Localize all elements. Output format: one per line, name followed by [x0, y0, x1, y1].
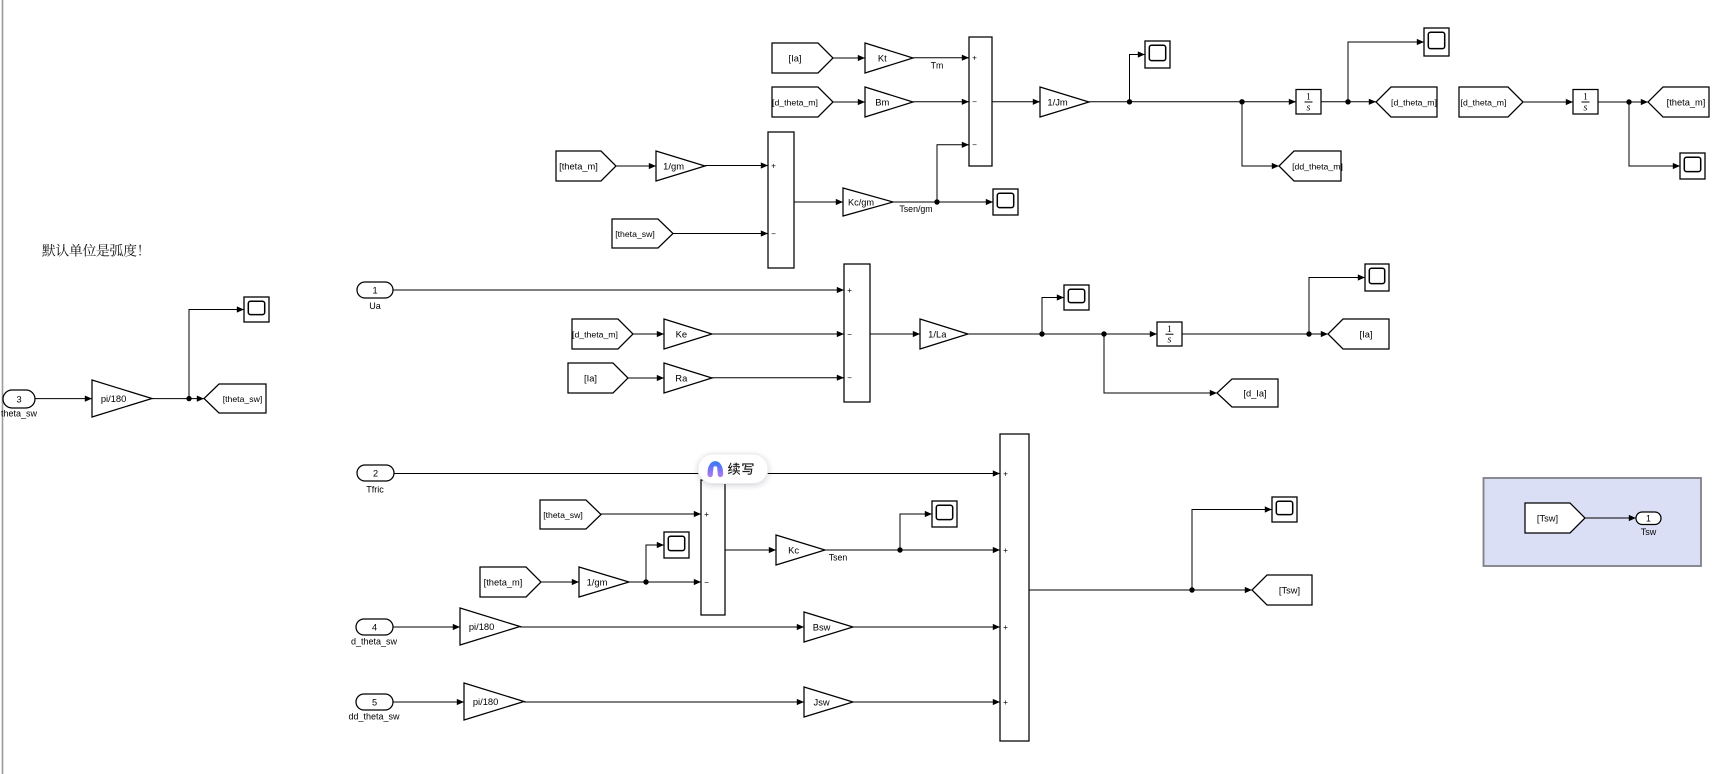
wire [d_theta_m] to gain Bm — [833, 99, 865, 105]
outport 1 Tsw — [1636, 512, 1661, 537]
wire Kc to torque sum, signal Tsen — [825, 547, 1000, 563]
wire integrator current out — [1182, 331, 1328, 337]
wire [Tsw] to outport — [1585, 515, 1636, 521]
inport 5 dd_theta_sw — [348, 694, 400, 722]
svg-text:s: s — [1584, 102, 1588, 113]
svg-text:1: 1 — [1583, 93, 1588, 103]
annotation text "默认单位是弧度！" — [42, 244, 141, 257]
gain 1/gm upper — [656, 151, 705, 181]
scope 1 (acceleration) — [1145, 41, 1170, 68]
junction theta_sw — [186, 396, 191, 401]
sum block switch torque — [1000, 434, 1029, 741]
svg-text:1/gm: 1/gm — [587, 576, 608, 587]
svg-text:d_theta_sw: d_theta_sw — [351, 637, 398, 647]
junction to goto dd_theta_m — [1239, 99, 1244, 104]
sum block sensor difference — [701, 480, 725, 615]
svg-text:+: + — [1003, 546, 1008, 555]
svg-text:Tm: Tm — [931, 61, 944, 71]
From tag [d_theta_m] right — [1459, 87, 1523, 117]
gain Ra — [664, 363, 712, 393]
wire angle sum to gain Kc/gm — [794, 199, 843, 205]
sum block motor torque — [969, 37, 992, 166]
Goto tag [Ia] — [1328, 319, 1389, 349]
svg-text:−: − — [847, 330, 852, 339]
svg-text:[theta_m]: [theta_m] — [484, 577, 523, 587]
svg-text:[theta_m]: [theta_m] — [1667, 97, 1706, 107]
svg-text:[Ia]: [Ia] — [789, 53, 802, 63]
wire Kt to sum, signal Tm — [913, 55, 969, 71]
svg-text:+: + — [972, 54, 977, 63]
svg-text:[theta_m]: [theta_m] — [559, 161, 598, 171]
svg-text:4: 4 — [372, 622, 377, 632]
Goto tag [d_Ia] — [1217, 379, 1278, 407]
wire integrator out to goto [d_theta_m] — [1321, 99, 1376, 105]
svg-text:2: 2 — [373, 468, 378, 478]
svg-text:[d_theta_m]: [d_theta_m] — [772, 97, 818, 107]
From tag [theta_m] lower — [480, 567, 541, 597]
wire [theta_sw] to angle sum — [673, 230, 768, 236]
wire down to goto [d_Ia] — [1104, 334, 1217, 396]
junction to goto d_Ia — [1101, 331, 1106, 336]
wire [theta_sw] to sensor sum — [601, 511, 701, 517]
wire sum to gain 1/Jm — [992, 99, 1040, 105]
gain Bsw — [804, 612, 853, 642]
wire Jsw to torque sum sw — [853, 699, 1000, 705]
svg-text:−: − — [704, 578, 709, 587]
svg-text:theta_sw: theta_sw — [1, 409, 38, 419]
svg-text:dd_theta_sw: dd_theta_sw — [348, 712, 400, 722]
gain Kt — [865, 43, 913, 73]
scope 7 (theta_sw rad) — [244, 297, 269, 322]
svg-text:[Tsw]: [Tsw] — [1279, 585, 1300, 595]
gain pi/180 (d_theta_sw) — [460, 608, 520, 645]
wire torque sum output to goto [Tsw] — [1029, 587, 1252, 593]
svg-text:[d_theta_m]: [d_theta_m] — [572, 329, 618, 339]
wire up to scope 10 — [1192, 506, 1272, 590]
svg-text:Tsw: Tsw — [1641, 527, 1657, 537]
svg-text:s: s — [1168, 334, 1172, 345]
svg-text:[theta_sw]: [theta_sw] — [223, 394, 263, 404]
subsystem output area (selected region) — [1484, 478, 1702, 566]
From tag [Tsw] in subsystem — [1525, 503, 1585, 533]
gain Jsw — [804, 687, 853, 717]
scope 3 (motor angle) — [1680, 153, 1705, 179]
junction to scope d_Ia — [1039, 331, 1044, 336]
svg-text:Tsen: Tsen — [829, 553, 848, 563]
wire 1/La output trunk — [968, 331, 1157, 337]
wire up to scope 8 — [646, 542, 664, 582]
Goto tag [d_theta_m] — [1376, 87, 1437, 117]
wire theta_sw to gain pi/180 — [35, 396, 92, 402]
integrator 1/s motor angle — [1573, 90, 1598, 115]
svg-text:+: + — [771, 161, 776, 170]
wire up to scope 2 — [1348, 39, 1424, 102]
wire 1/gm to angle sum — [705, 162, 768, 168]
junction Tsw — [1189, 587, 1194, 592]
inport 3 theta_sw — [1, 390, 38, 419]
junction Tsen — [897, 547, 902, 552]
svg-text:[Ia]: [Ia] — [1360, 329, 1373, 339]
scope 6 (Ia) — [1365, 264, 1389, 291]
svg-text:3: 3 — [16, 394, 21, 404]
wire up to scope 1 — [1130, 51, 1146, 101]
wire Tsen/gm up to torque sum — [937, 142, 969, 202]
svg-text:+: + — [1003, 469, 1008, 478]
wire to gain Ke — [633, 331, 664, 337]
svg-text:+: + — [847, 286, 852, 295]
wire up to scope 5 — [1042, 294, 1064, 334]
inport 4 d_theta_sw — [351, 619, 398, 647]
scope 10 (Tsw) — [1272, 497, 1297, 522]
scope 2 (motor speed) — [1424, 28, 1449, 56]
gain Kc/gm — [843, 188, 893, 216]
svg-text:[Tsw]: [Tsw] — [1537, 513, 1558, 523]
svg-text:Ke: Ke — [676, 328, 687, 339]
gain 1/Jm — [1040, 87, 1089, 117]
svg-text:1: 1 — [1646, 514, 1651, 524]
scope 8 (angle diff) — [664, 532, 689, 558]
From tag [d_theta_m] top — [772, 87, 833, 117]
svg-text:[d_theta_m]: [d_theta_m] — [1461, 97, 1507, 107]
wire 1/gm to sensor sum — [629, 579, 701, 585]
AI assistant pill button 续写 — [698, 454, 768, 484]
junction Tsen/gm — [934, 199, 939, 204]
junction sensor input — [643, 579, 648, 584]
svg-text:[theta_sw]: [theta_sw] — [615, 229, 655, 239]
svg-text:Bm: Bm — [875, 96, 889, 107]
wire voltage sum to gain 1/La — [870, 331, 920, 337]
wire up to scope 6 — [1309, 274, 1365, 334]
svg-text:Tsen/gm: Tsen/gm — [899, 204, 932, 214]
integrator 1/s current — [1157, 322, 1182, 346]
Goto tag [dd_theta_m] — [1279, 151, 1343, 181]
svg-text:Tfric: Tfric — [366, 485, 384, 495]
svg-text:[d_Ia]: [d_Ia] — [1243, 388, 1266, 398]
wire up to scope 7 — [189, 306, 244, 398]
wire [Ia] to gain Kt — [833, 55, 865, 61]
junction after integrator 1 — [1345, 99, 1350, 104]
wire integrator 2 out to goto [theta_m] — [1598, 99, 1648, 105]
gain Kc — [776, 535, 825, 565]
From tag [Ia] — [772, 43, 833, 73]
From tag [theta_m] gear — [556, 151, 616, 181]
wire Ra to voltage sum — [712, 375, 844, 381]
svg-text:+: + — [1003, 623, 1008, 632]
junction to scope dd_theta — [1127, 99, 1132, 104]
svg-text:[dd_theta_m]: [dd_theta_m] — [1292, 161, 1343, 171]
inport 2 Tfric — [357, 465, 394, 495]
wire Ua to voltage sum — [393, 287, 844, 293]
wire pi/180 to goto [theta_sw] — [152, 396, 204, 402]
wire Tfric to torque sum sw — [394, 470, 1000, 476]
svg-text:Ua: Ua — [369, 301, 381, 311]
svg-text:−: − — [972, 141, 977, 150]
svg-text:1: 1 — [1167, 325, 1172, 335]
scope 4 (Tsen/gm) — [993, 189, 1018, 215]
svg-text:s: s — [1307, 102, 1311, 113]
From tag [d_theta_m] emf — [572, 319, 633, 349]
gain 1/gm lower — [579, 567, 629, 597]
svg-text:5: 5 — [372, 697, 377, 707]
svg-text:Kc: Kc — [788, 544, 799, 555]
wire [theta_m] to gain 1/gm — [616, 163, 656, 169]
wire Ke to voltage sum — [712, 331, 844, 337]
svg-text:Bsw: Bsw — [813, 621, 831, 632]
gain pi/180 (theta_sw) — [92, 380, 152, 417]
gain Ke — [664, 319, 712, 349]
svg-text:[theta_sw]: [theta_sw] — [543, 510, 583, 520]
sum block angle difference — [768, 132, 794, 268]
svg-text:Kt: Kt — [878, 52, 887, 63]
From tag [theta_sw] lower — [540, 500, 601, 529]
wire to gain Ra — [628, 375, 664, 381]
junction after integrator 2 — [1626, 99, 1631, 104]
scope 9 (Tsen) — [932, 501, 957, 527]
wire Kc/gm to scope, signal Tsen/gm — [893, 199, 993, 214]
wire sensor sum to gain Kc — [725, 547, 776, 553]
wire dd_theta_sw to pi/180 — [393, 699, 464, 705]
gain Bm — [865, 87, 913, 117]
wire pi/180 to gain Bsw — [520, 624, 804, 630]
svg-text:pi/180: pi/180 — [101, 393, 127, 404]
junction after current integrator — [1306, 331, 1311, 336]
svg-text:−: − — [972, 98, 977, 107]
wire to integrator 2 — [1523, 99, 1573, 105]
svg-text:[d_theta_m]: [d_theta_m] — [1391, 97, 1437, 107]
wire down to scope 3 — [1629, 102, 1680, 169]
svg-text:+: + — [704, 510, 709, 519]
From tag [Ia] resistance — [568, 363, 628, 393]
sum block voltage loop — [844, 264, 870, 402]
svg-text:1: 1 — [1306, 93, 1311, 103]
wire [theta_m] to gain 1/gm lower — [541, 579, 579, 585]
svg-text:−: − — [771, 229, 776, 238]
Goto tag [Tsw] — [1252, 575, 1312, 605]
gain 1/La — [920, 319, 968, 349]
svg-text:1/Jm: 1/Jm — [1047, 96, 1068, 107]
svg-text:[Ia]: [Ia] — [584, 373, 597, 383]
wire d_theta_sw to pi/180 — [393, 624, 460, 630]
wire 1/Jm output trunk — [1089, 99, 1296, 105]
inport 1 Ua — [357, 282, 393, 311]
svg-text:pi/180: pi/180 — [473, 696, 499, 707]
svg-text:pi/180: pi/180 — [469, 621, 495, 632]
From tag [theta_sw] upper — [612, 219, 673, 248]
wire up to scope 9 — [900, 511, 932, 550]
wire Bsw to torque sum sw — [853, 624, 1000, 630]
svg-text:+: + — [1003, 698, 1008, 707]
wire Bm to sum — [913, 99, 969, 105]
gain pi/180 (dd_theta_sw) — [464, 683, 524, 720]
svg-text:1/La: 1/La — [928, 328, 947, 339]
wire pi/180 to gain Jsw — [524, 699, 804, 705]
wire down to goto [dd_theta_m] — [1242, 102, 1279, 169]
Goto tag [theta_sw] — [204, 384, 266, 413]
Goto tag [theta_m] — [1648, 87, 1709, 117]
integrator 1/s motor speed — [1296, 90, 1321, 115]
svg-text:Ra: Ra — [675, 372, 688, 383]
scope 5 (d_Ia) — [1064, 285, 1089, 310]
svg-text:1/gm: 1/gm — [663, 160, 684, 171]
svg-text:Jsw: Jsw — [814, 696, 830, 707]
svg-text:−: − — [847, 374, 852, 383]
svg-text:1: 1 — [372, 285, 377, 295]
svg-text:Kc/gm: Kc/gm — [848, 197, 874, 207]
